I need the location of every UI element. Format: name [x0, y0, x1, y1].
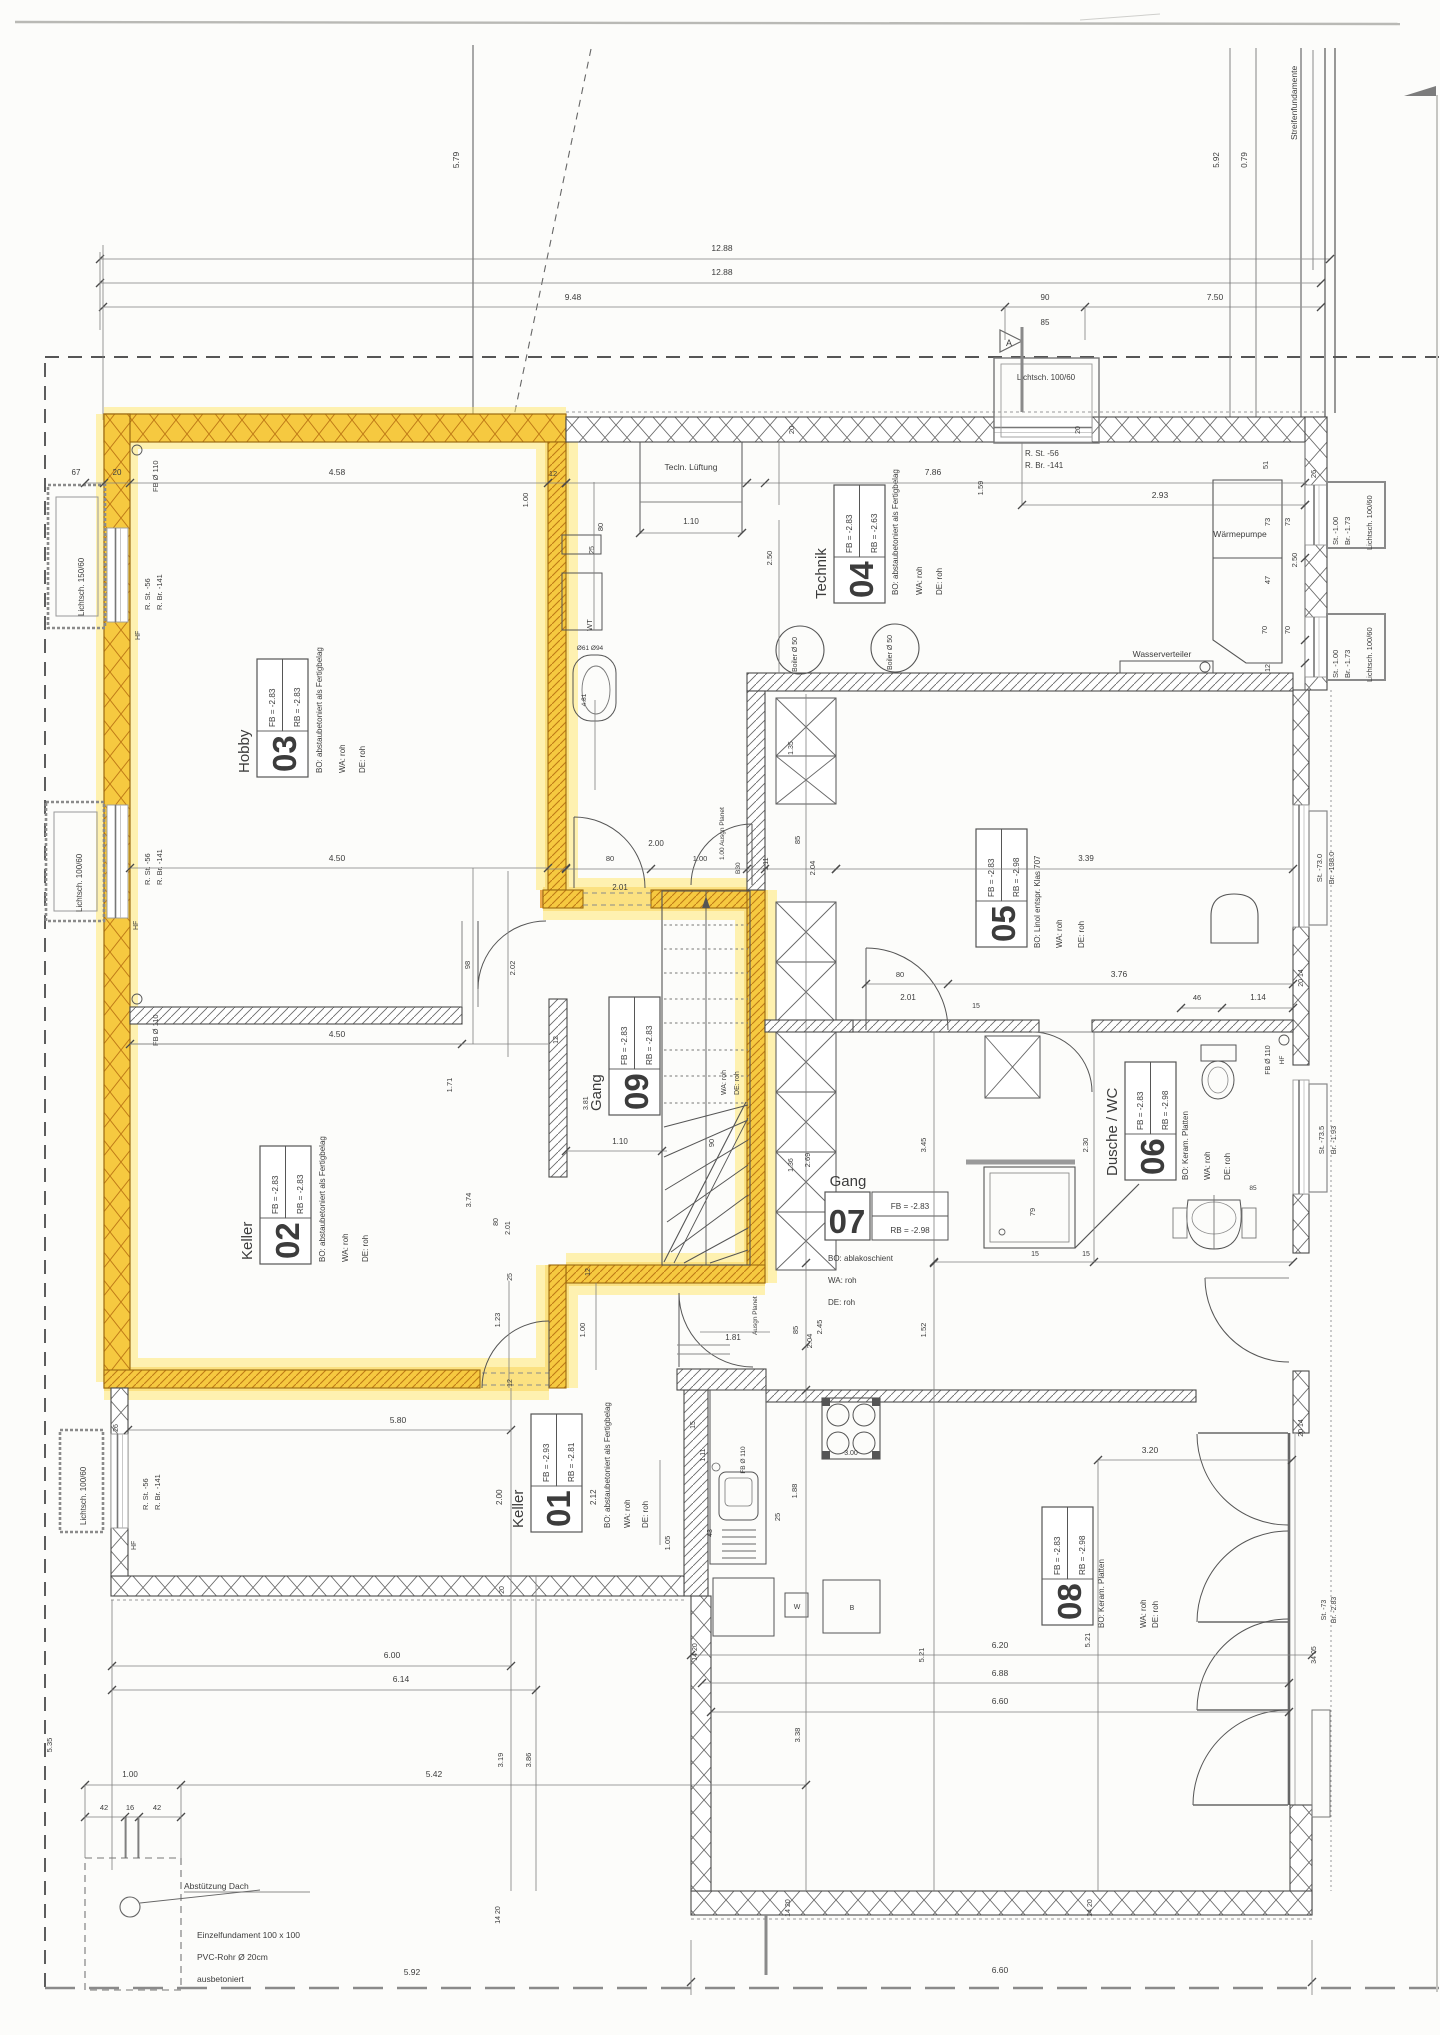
svg-text:Lichtsch. 150/60: Lichtsch. 150/60 — [77, 557, 86, 616]
svg-text:FB Ø 110: FB Ø 110 — [151, 1014, 160, 1046]
wall exterior left lower building — [691, 1596, 711, 1891]
dim row 4.50 room02 — [130, 1043, 462, 1045]
svg-text:DE: roh: DE: roh — [361, 1235, 370, 1262]
svg-text:FB = -2.83: FB = -2.83 — [271, 1175, 280, 1214]
boiler 2 — [871, 624, 919, 672]
exterior door sill bottom right — [1312, 1710, 1330, 1817]
svg-text:PVC-Rohr Ø 20cm: PVC-Rohr Ø 20cm — [197, 1952, 268, 1962]
washbasin room06 — [1187, 1200, 1241, 1249]
wall stairwell west — [549, 999, 567, 1177]
svg-text:73: 73 — [1263, 518, 1272, 526]
ventilation shafts column — [776, 698, 836, 756]
svg-text:73: 73 — [1283, 518, 1292, 526]
svg-text:85: 85 — [791, 1326, 800, 1334]
svg-text:20 14: 20 14 — [1298, 1419, 1305, 1437]
svg-text:RB = -2.98: RB = -2.98 — [890, 1226, 930, 1235]
svg-text:6.88: 6.88 — [992, 1668, 1009, 1678]
svg-text:5.92: 5.92 — [1212, 152, 1221, 168]
door room05 to 06 — [1032, 1032, 1092, 1092]
svg-text:FB = -2.83: FB = -2.83 — [268, 688, 277, 727]
wall exterior top grey — [566, 417, 994, 442]
svg-text:FB = -2.93: FB = -2.93 — [542, 1443, 551, 1482]
room label 05 — [976, 829, 1027, 947]
dimension chain 9.48 / 90 / 7.50 — [103, 306, 1321, 308]
svg-text:R. St. -56: R. St. -56 — [143, 578, 152, 610]
dim row y1263 — [934, 1261, 1293, 1263]
svg-text:R. St. -56: R. St. -56 — [1025, 449, 1059, 458]
svg-text:08: 08 — [1051, 1583, 1088, 1620]
svg-text:85: 85 — [1041, 318, 1050, 327]
svg-text:2.01: 2.01 — [505, 1221, 512, 1235]
cabinet small — [562, 535, 601, 554]
svg-text:06: 06 — [1134, 1138, 1171, 1175]
svg-text:3.19: 3.19 — [496, 1753, 505, 1768]
appliance B — [823, 1580, 880, 1633]
svg-text:15: 15 — [1031, 1251, 1039, 1258]
dim row 5.42 — [85, 1784, 806, 1786]
shower room06 — [984, 1167, 1075, 1248]
lichtschacht opening top wall — [994, 417, 1092, 442]
svg-text:14 20: 14 20 — [1087, 1899, 1094, 1917]
dim row technik top — [566, 482, 1305, 484]
svg-text:03: 03 — [266, 735, 303, 772]
svg-text:BO: Keram. Platten: BO: Keram. Platten — [1181, 1111, 1190, 1180]
svg-text:2.00: 2.00 — [495, 1489, 504, 1505]
dashed excavation boundary top — [45, 356, 1440, 358]
svg-text:2.00: 2.00 — [648, 839, 664, 848]
door room02 north notch — [477, 921, 479, 989]
svg-text:3.00: 3.00 — [844, 1450, 858, 1457]
svg-text:FB = -2.83: FB = -2.83 — [845, 514, 854, 553]
window right upper 2 — [1305, 617, 1327, 677]
svg-text:14 20: 14 20 — [495, 1906, 502, 1924]
svg-text:1.71: 1.71 — [445, 1078, 454, 1093]
wall piece west shaft — [765, 1020, 853, 1032]
svg-text:DE: roh: DE: roh — [1151, 1601, 1160, 1628]
room label 08 — [1042, 1507, 1093, 1625]
svg-text:St. -73.5: St. -73.5 — [1317, 1126, 1326, 1154]
svg-text:80: 80 — [896, 970, 904, 979]
svg-text:90: 90 — [1041, 293, 1050, 302]
svg-text:BO: abstaubetoniert als Fertig: BO: abstaubetoniert als Fertigbelag — [891, 469, 900, 595]
svg-text:1.36: 1.36 — [788, 1158, 795, 1172]
svg-text:2.69: 2.69 — [803, 1153, 812, 1168]
shaft room 06 — [985, 1036, 1040, 1098]
lichtschacht right upper pair — [1327, 482, 1385, 548]
svg-text:6.00: 6.00 — [384, 1650, 401, 1660]
scan edge right — [1436, 95, 1438, 1992]
svg-text:B30: B30 — [735, 862, 742, 874]
svg-text:St. -1.00: St. -1.00 — [1331, 517, 1340, 545]
svg-text:7.50: 7.50 — [1207, 292, 1224, 302]
window right upper 1 — [1305, 485, 1327, 545]
svg-text:12.88: 12.88 — [711, 243, 733, 253]
svg-text:3.39: 3.39 — [1078, 854, 1094, 863]
FB pipe circles left wall — [132, 445, 142, 455]
dim row 6.00 — [112, 1665, 511, 1667]
Waermepumpe — [1213, 480, 1282, 663]
dimension chain 12.88 row1 — [100, 258, 1330, 260]
svg-text:Br. -1.73: Br. -1.73 — [1343, 650, 1352, 678]
svg-text:R. Br. -141: R. Br. -141 — [1025, 461, 1064, 470]
Wasserverteiler — [1120, 661, 1213, 673]
staircase outline — [662, 891, 750, 1265]
wall exterior bottom left building — [111, 1576, 684, 1596]
svg-text:BO: abstaubetoniert als Fertig: BO: abstaubetoniert als Fertigbelag — [318, 1136, 327, 1262]
svg-text:Hobby: Hobby — [236, 729, 253, 773]
svg-text:FB = -2.83: FB = -2.83 — [1136, 1091, 1145, 1130]
svg-text:Abstützung Dach: Abstützung Dach — [184, 1881, 249, 1891]
svg-text:5.21: 5.21 — [1083, 1633, 1092, 1648]
svg-text:1.00: 1.00 — [578, 1323, 587, 1338]
svg-text:Ø61 Ø94: Ø61 Ø94 — [577, 645, 604, 652]
dotted insulation line right — [1330, 690, 1332, 1891]
svg-text:RB = -2.98: RB = -2.98 — [1012, 857, 1021, 897]
wall exterior right upper — [1305, 417, 1327, 690]
svg-text:26: 26 — [1309, 470, 1318, 478]
svg-text:WA: roh: WA: roh — [915, 566, 924, 595]
svg-text:16: 16 — [126, 1803, 134, 1812]
svg-text:7.86: 7.86 — [925, 467, 942, 477]
wall jog stairwell to keller02 (yellow) — [549, 1265, 566, 1388]
dim row 6.14 — [112, 1689, 536, 1691]
svg-text:9.48: 9.48 — [565, 292, 582, 302]
svg-text:St. -73.0: St. -73.0 — [1315, 854, 1324, 882]
svg-text:3.38: 3.38 — [793, 1728, 802, 1743]
svg-text:2.02: 2.02 — [508, 961, 517, 976]
svg-text:Einzelfundament 100 x 100: Einzelfundament 100 x 100 — [197, 1930, 300, 1940]
svg-text:FB = -2.83: FB = -2.83 — [1053, 1536, 1062, 1575]
door corridor east — [691, 824, 752, 885]
svg-text:Streifenfundamente: Streifenfundamente — [1289, 66, 1299, 140]
extension lines to Streifenfundamente — [1229, 210, 1231, 417]
glazing door arcs room 08 — [1197, 1434, 1288, 1525]
svg-text:DE: roh: DE: roh — [641, 1501, 650, 1528]
wall corridor west vertical — [747, 691, 765, 890]
svg-text:Keller: Keller — [510, 1490, 527, 1528]
svg-text:Lichtsch. 100/60: Lichtsch. 100/60 — [79, 1466, 88, 1525]
door corridor west — [573, 817, 575, 888]
svg-text:25: 25 — [507, 1273, 514, 1281]
svg-text:RB = -2.98: RB = -2.98 — [1078, 1535, 1087, 1575]
svg-text:2.04: 2.04 — [808, 861, 817, 876]
svg-text:20: 20 — [787, 426, 796, 434]
svg-text:Br. -2.83: Br. -2.83 — [1331, 1597, 1338, 1624]
svg-text:1.00: 1.00 — [122, 1770, 138, 1779]
svg-text:1.10: 1.10 — [683, 517, 699, 526]
svg-text:HF: HF — [133, 921, 140, 930]
dim rows bottom right — [691, 1654, 1312, 1656]
svg-text:Tecln. Lüftung: Tecln. Lüftung — [665, 462, 718, 472]
lichtschacht 100/60 left middle — [46, 802, 104, 921]
wall exterior right middle segments — [1293, 690, 1309, 805]
boiler 1 — [776, 626, 824, 674]
svg-text:FB Ø 110: FB Ø 110 — [740, 1446, 747, 1474]
dim 1.10 stairwell — [566, 1150, 667, 1152]
dimension chain 12.88 row2 — [100, 282, 1321, 284]
stove 4 burners — [822, 1398, 880, 1459]
svg-text:Technik: Technik — [813, 548, 830, 599]
window left lower (Keller01) — [111, 1434, 128, 1528]
svg-text:R. Br. -141: R. Br. -141 — [153, 1474, 162, 1510]
svg-text:2.04: 2.04 — [805, 1334, 814, 1349]
svg-text:80: 80 — [606, 854, 614, 863]
svg-text:09: 09 — [618, 1073, 655, 1110]
dim row y984 — [866, 983, 1293, 985]
svg-text:RB = -2.63: RB = -2.63 — [870, 513, 879, 553]
svg-text:5.92: 5.92 — [404, 1967, 421, 1977]
svg-text:B: B — [850, 1605, 855, 1612]
dashed excavation boundary left — [44, 363, 46, 1988]
svg-text:20: 20 — [499, 1586, 506, 1594]
svg-text:85: 85 — [793, 836, 802, 844]
svg-text:79: 79 — [1028, 1208, 1037, 1216]
svg-text:02: 02 — [269, 1222, 306, 1259]
yellow highlight glow — [104, 414, 765, 1388]
svg-text:0.79: 0.79 — [1240, 152, 1249, 168]
svg-text:67: 67 — [72, 468, 81, 477]
svg-text:2.01: 2.01 — [900, 993, 916, 1002]
kitchen counter room08 — [710, 1390, 766, 1564]
svg-text:BO: ablakoschient: BO: ablakoschient — [828, 1254, 894, 1263]
lichtschacht 100/60 top — [994, 358, 1099, 443]
svg-text:FB Ø 110: FB Ø 110 — [1265, 1045, 1272, 1075]
svg-text:Dusche / WC: Dusche / WC — [1104, 1087, 1121, 1176]
svg-text:43: 43 — [707, 1529, 714, 1537]
svg-text:12.88: 12.88 — [711, 267, 733, 277]
svg-text:1.05: 1.05 — [663, 1536, 672, 1551]
svg-text:5.80: 5.80 — [390, 1415, 407, 1425]
svg-text:WA: roh: WA: roh — [1203, 1151, 1212, 1180]
svg-text:BO: abstaubetoniert als Fertig: BO: abstaubetoniert als Fertigbelag — [603, 1402, 612, 1528]
svg-text:DE: roh: DE: roh — [734, 1071, 741, 1095]
svg-text:20: 20 — [113, 468, 122, 477]
wall middle vertical (01/08 divider) — [684, 1390, 708, 1596]
svg-text:15: 15 — [1082, 1251, 1090, 1258]
svg-text:HF: HF — [1279, 1056, 1286, 1065]
svg-text:1.00 Ausgn Planet: 1.00 Ausgn Planet — [719, 807, 726, 860]
svg-text:1.23: 1.23 — [493, 1313, 502, 1328]
svg-text:90: 90 — [707, 1139, 716, 1147]
door corridor to room05 — [865, 948, 867, 1030]
arch niche room05 — [1211, 894, 1258, 943]
svg-text:4.50: 4.50 — [329, 853, 346, 863]
svg-text:W: W — [794, 1604, 801, 1611]
svg-text:R. St. -56: R. St. -56 — [141, 1478, 150, 1510]
svg-text:14 20: 14 20 — [692, 1643, 699, 1661]
svg-text:14 20: 14 20 — [785, 1899, 792, 1917]
svg-text:42: 42 — [153, 1803, 161, 1812]
svg-text:Keller: Keller — [239, 1222, 256, 1260]
dim row top inner — [85, 482, 566, 484]
svg-text:12: 12 — [553, 1036, 560, 1044]
svg-text:04: 04 — [843, 561, 880, 598]
svg-text:2.01: 2.01 — [612, 883, 628, 892]
svg-text:6.60: 6.60 — [992, 1965, 1009, 1975]
lichtschacht 100/60 left lower — [60, 1430, 103, 1532]
scan corner mark top right — [1404, 86, 1436, 96]
svg-text:3.20: 3.20 — [1142, 1445, 1159, 1455]
svg-text:46: 46 — [1193, 993, 1201, 1002]
section marker A — [1000, 330, 1022, 352]
wall divider 07/08 kitchen — [766, 1390, 1196, 1402]
stair center line — [705, 891, 707, 1265]
dim column x806 — [805, 694, 807, 1891]
svg-text:5.35: 5.35 — [45, 1738, 54, 1753]
dim row 4.50 room03 — [130, 867, 548, 869]
svg-text:DE: roh: DE: roh — [828, 1298, 855, 1307]
wall divider 05/06 — [836, 1020, 1039, 1032]
sill right middle 2 — [1309, 1084, 1327, 1192]
svg-text:15: 15 — [690, 1421, 697, 1429]
section line A vertical — [472, 45, 474, 442]
svg-text:3.76: 3.76 — [1111, 969, 1128, 979]
wall divider 03/02 — [130, 1007, 462, 1024]
svg-text:Lichtsch. 100/60: Lichtsch. 100/60 — [1017, 373, 1076, 382]
wall corridor kitchen piece — [677, 1369, 766, 1390]
door corridor 07 south — [678, 1293, 680, 1367]
room label 03 Hobby — [257, 659, 308, 777]
appliance W — [785, 1593, 808, 1617]
svg-text:WA: roh: WA: roh — [338, 744, 347, 773]
svg-text:WT: WT — [585, 619, 594, 631]
svg-text:Lichtsch. 100/60: Lichtsch. 100/60 — [75, 853, 84, 912]
svg-text:FB Ø 110: FB Ø 110 — [151, 460, 160, 492]
section line bottom — [765, 1915, 768, 1975]
door keller02 to 01 — [548, 1321, 550, 1388]
window right middle 1 — [1293, 805, 1309, 927]
window right middle 2 — [1293, 1080, 1309, 1194]
svg-text:1.10: 1.10 — [612, 1137, 628, 1146]
svg-text:20: 20 — [1075, 426, 1082, 434]
room label 02 Keller — [260, 1146, 311, 1264]
svg-text:HF: HF — [131, 1541, 138, 1550]
stair winder treads — [664, 1105, 748, 1127]
svg-text:Br. -1.93: Br. -1.93 — [1329, 1126, 1338, 1154]
dim row 3.39 — [836, 868, 1293, 870]
dim verticals mid — [472, 868, 474, 1044]
svg-text:47: 47 — [1263, 576, 1272, 584]
svg-text:Br. -1.73: Br. -1.73 — [1343, 517, 1352, 545]
svg-text:HF: HF — [135, 631, 142, 640]
dashed foundation square — [85, 1858, 181, 1990]
svg-text:6.20: 6.20 — [992, 1640, 1009, 1650]
svg-text:1.14: 1.14 — [1250, 993, 1266, 1002]
svg-text:5.42: 5.42 — [426, 1769, 443, 1779]
wall keller02 bottom (yellow) — [104, 1370, 480, 1388]
toilet room06 — [1201, 1045, 1236, 1061]
svg-text:80: 80 — [493, 1218, 500, 1226]
wall stairwell bottom (yellow) — [566, 1265, 765, 1283]
svg-text:25: 25 — [773, 1513, 782, 1521]
svg-text:6.14: 6.14 — [393, 1674, 410, 1684]
svg-text:80: 80 — [596, 523, 605, 531]
wall stairwell top (yellow) — [543, 890, 583, 908]
svg-text:70: 70 — [1260, 626, 1269, 634]
svg-text:St. -73: St. -73 — [1321, 1600, 1328, 1621]
dim row 42 16 42 — [85, 1816, 181, 1818]
svg-text:20 14: 20 14 — [1298, 969, 1305, 987]
svg-text:12: 12 — [549, 469, 557, 478]
svg-text:A: A — [1006, 338, 1012, 348]
svg-text:3.81: 3.81 — [583, 1096, 590, 1110]
svg-text:FB = -2.83: FB = -2.83 — [620, 1026, 629, 1065]
svg-text:07: 07 — [829, 1203, 866, 1240]
svg-text:98: 98 — [463, 961, 472, 969]
svg-text:12: 12 — [585, 1268, 592, 1276]
dim 46 1.14 — [1181, 1007, 1293, 1009]
svg-text:1.00: 1.00 — [521, 493, 530, 508]
svg-text:05: 05 — [985, 905, 1022, 942]
svg-text:BO: abstaubetoniert als Fertig: BO: abstaubetoniert als Fertigbelag — [315, 647, 324, 773]
svg-text:WA: roh: WA: roh — [341, 1233, 350, 1262]
svg-text:Wasserverteiler: Wasserverteiler — [1133, 649, 1192, 659]
svg-text:1.59: 1.59 — [976, 481, 985, 496]
wall exterior right lower corner — [1290, 1805, 1312, 1915]
svg-text:WA: roh: WA: roh — [828, 1276, 857, 1285]
svg-text:2.50: 2.50 — [1290, 553, 1299, 568]
svg-text:St. -1.00: St. -1.00 — [1331, 650, 1340, 678]
svg-text:1.35: 1.35 — [788, 741, 795, 755]
svg-text:3.74: 3.74 — [464, 1193, 473, 1208]
room label 09 Gang — [609, 997, 660, 1115]
stair treads dotted — [664, 924, 748, 926]
lichtschacht 150/60 left upper — [48, 485, 105, 628]
svg-text:WA: roh: WA: roh — [623, 1499, 632, 1528]
svg-text:51: 51 — [1261, 461, 1270, 469]
wall exterior left lower — [111, 1388, 128, 1576]
svg-text:RB = -2.83: RB = -2.83 — [296, 1174, 305, 1214]
svg-text:1.88: 1.88 — [790, 1484, 799, 1499]
svg-text:4.50: 4.50 — [329, 1029, 346, 1039]
svg-text:WA: roh: WA: roh — [721, 1070, 728, 1095]
svg-text:6.60: 6.60 — [992, 1696, 1009, 1706]
sill right middle 1 — [1309, 811, 1327, 925]
svg-text:Gang: Gang — [830, 1173, 867, 1190]
svg-text:R. St. -56: R. St. -56 — [143, 853, 152, 885]
door right wall room06 exit — [1205, 1278, 1289, 1362]
glazing band right (room 08) — [1288, 1433, 1291, 1805]
svg-text:FB = -2.83: FB = -2.83 — [891, 1202, 930, 1211]
svg-text:12: 12 — [1265, 664, 1272, 672]
svg-text:70: 70 — [1283, 626, 1292, 634]
svg-text:RB = -2.83: RB = -2.83 — [645, 1025, 654, 1065]
svg-text:Lichtsch. 100/60: Lichtsch. 100/60 — [1365, 627, 1374, 682]
svg-text:DE: roh: DE: roh — [358, 746, 367, 773]
svg-text:1.52: 1.52 — [919, 1323, 928, 1338]
svg-text:2.50: 2.50 — [765, 551, 774, 566]
scan artifact top line — [15, 22, 1400, 24]
svg-text:Wärmepumpe: Wärmepumpe — [1213, 529, 1267, 539]
window left wall upper (Hobby) — [107, 528, 128, 622]
wall exterior top (unit 2/3, yellow) — [104, 414, 566, 442]
svg-text:2.93: 2.93 — [1152, 490, 1169, 500]
svg-text:12: 12 — [507, 1379, 514, 1387]
svg-text:5.79: 5.79 — [451, 151, 461, 168]
kitchen lower counter — [713, 1578, 774, 1636]
svg-text:3.86: 3.86 — [524, 1753, 533, 1768]
dashed excavation boundary bottom — [45, 1987, 1440, 1989]
room label 06 Dusche/WC — [1125, 1062, 1176, 1180]
foundation pipe circle — [120, 1897, 140, 1917]
room label 01 Keller — [531, 1414, 582, 1532]
svg-text:3.45: 3.45 — [919, 1138, 928, 1153]
dashed roof outline diagonal — [509, 49, 591, 440]
bottom dashed dim 5.92 6.60 — [687, 1978, 695, 1986]
svg-text:26: 26 — [113, 1424, 120, 1432]
svg-text:RB = -2.81: RB = -2.81 — [567, 1442, 576, 1482]
svg-text:Boiler Ø 50: Boiler Ø 50 — [887, 635, 894, 670]
